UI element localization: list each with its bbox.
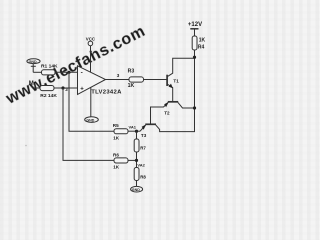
wire ground stub below op-amp	[90, 87, 92, 117]
svg-text:-: -	[81, 70, 83, 77]
ground oval below op-amp	[85, 117, 99, 123]
svg-text:+: +	[80, 86, 84, 92]
node VA1	[135, 130, 138, 133]
wire R6 to node VA2	[128, 159, 137, 161]
svg-text:R3: R3	[128, 68, 135, 74]
resistor R8	[134, 168, 139, 181]
node R4 T1 collector junction	[193, 56, 196, 59]
svg-text:R5: R5	[113, 123, 119, 128]
resistor R4	[192, 36, 197, 50]
svg-text:3: 3	[117, 73, 120, 78]
resistor R1	[42, 70, 56, 75]
op-amp U1 TLV2342A	[78, 66, 106, 95]
power VCC symbol	[88, 41, 93, 46]
wire T2 left lead to T3	[151, 102, 169, 123]
svg-text:TLV2342A: TLV2342A	[91, 89, 122, 95]
wire R7 to node VA2	[136, 152, 138, 168]
ground oval bottom	[131, 186, 143, 192]
resistor R6	[114, 158, 128, 163]
svg-text:VA1: VA1	[129, 125, 137, 130]
node feedback tap inverting input	[67, 71, 70, 74]
svg-text:GND: GND	[86, 118, 94, 122]
node T2 rail junction	[193, 106, 196, 109]
arrow T2 emitter	[164, 102, 169, 107]
wire R5 to node VA1	[128, 130, 140, 132]
svg-text:www.elecfans.com: www.elecfans.com	[3, 23, 149, 108]
svg-text:GND: GND	[29, 60, 37, 64]
svg-text:VA2: VA2	[137, 162, 145, 167]
node VA2	[135, 159, 138, 162]
wire VA1 node to R7	[136, 131, 138, 139]
svg-text:VCC: VCC	[86, 37, 96, 42]
svg-text:M: M	[29, 81, 34, 87]
transistor T3 base bar	[145, 123, 156, 125]
arrow T1 emitter	[169, 84, 173, 89]
svg-text:1K: 1K	[113, 164, 120, 169]
svg-text:R4: R4	[198, 44, 205, 50]
transistor Q T1 base bar	[166, 75, 168, 86]
svg-text:R7: R7	[140, 146, 146, 151]
svg-text:T3: T3	[141, 133, 147, 138]
wire op-amp output	[106, 79, 130, 81]
svg-text:R2 14K: R2 14K	[40, 93, 57, 99]
arrow T3 emitter	[142, 124, 147, 129]
terminal M	[32, 86, 41, 88]
power +12V symbol	[190, 29, 198, 36]
wire GND1 to R1	[33, 71, 41, 73]
svg-text:1K: 1K	[199, 37, 206, 43]
wire T3 left lead to node VA1	[140, 125, 145, 131]
node feedback tap non-inverting input	[61, 86, 64, 89]
wire R8 to ground	[136, 181, 138, 187]
svg-text:R6: R6	[113, 152, 119, 157]
svg-text:1K: 1K	[128, 83, 135, 89]
resistor R2	[40, 86, 54, 91]
svg-text:1K: 1K	[113, 136, 120, 141]
wire T3 right lead loop to rail	[156, 50, 195, 132]
svg-text:T1: T1	[173, 78, 179, 83]
pin 8 blob on VCC stub	[90, 51, 92, 53]
svg-text:R8: R8	[140, 175, 146, 180]
wire T1 collector	[167, 58, 194, 76]
wire R1 to op-amp inverting input	[55, 71, 78, 73]
transistor T2 base bar	[168, 101, 178, 103]
svg-text:GND: GND	[132, 188, 140, 192]
wire T1 emitter	[167, 84, 172, 101]
wire R2 to op-amp non-inverting input	[54, 87, 78, 89]
wire R3 to T1 base	[144, 79, 167, 81]
speck artifact	[25, 145, 27, 147]
svg-text:T2: T2	[164, 111, 170, 116]
svg-text:+12V: +12V	[188, 22, 202, 28]
resistor R7	[134, 139, 139, 152]
svg-text:R1 14K: R1 14K	[41, 64, 58, 70]
wire T2 right lead to rail	[178, 102, 195, 108]
resistor R5	[114, 129, 128, 134]
node GND terminal top-left oval	[27, 59, 40, 73]
wire feedback from inverting input down to R5	[69, 72, 114, 131]
wire VCC stub	[90, 46, 92, 72]
resistor R3	[129, 77, 144, 82]
wire feedback from non-inverting input down to R6	[63, 88, 114, 160]
